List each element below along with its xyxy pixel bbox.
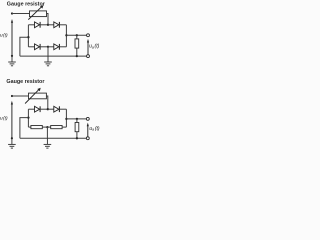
terminal lower output bbox=[87, 55, 90, 58]
gauge resistor RG2 variability arrow bbox=[25, 88, 41, 104]
ground center (bottom circuit) bbox=[44, 138, 52, 148]
resistor R2 body bbox=[31, 126, 42, 129]
resistor R4 body bbox=[75, 123, 79, 132]
voltage arrow ua(t) (bottom circuit) bbox=[87, 123, 89, 137]
wire left tap to bottom rail (bottom circuit) bbox=[20, 118, 29, 139]
voltage arrow ua(t) bbox=[87, 39, 89, 55]
node resistor bottom junction (bottom circuit) bbox=[76, 137, 78, 139]
wire bottom rail (bottom circuit) bbox=[20, 137, 87, 139]
terminal upper output bbox=[87, 34, 90, 37]
gauge resistor RG1 body bbox=[30, 11, 47, 17]
wire R3 to bridge right stub bbox=[62, 126, 66, 128]
node L1 junction on bridge left bbox=[27, 36, 29, 38]
wire node C2 to bottom rail bbox=[46, 127, 48, 138]
node A1 top-left terminal dot bbox=[11, 12, 13, 14]
wire D2 to bridge right bbox=[59, 24, 66, 26]
node source bottom junction (bottom circuit) bbox=[11, 137, 13, 139]
node resistor top junction (bottom circuit) bbox=[76, 118, 78, 120]
resistor R1 body bbox=[75, 39, 79, 48]
node A2 top-left terminal dot bbox=[11, 95, 13, 97]
wire bridge left vertical (bottom circuit) bbox=[27, 109, 29, 127]
svg-text:ua(t): ua(t) bbox=[89, 126, 99, 132]
wire resistor top stub bbox=[76, 35, 78, 39]
node B2 junction bbox=[47, 108, 49, 110]
node L2 junction on bridge left bbox=[27, 116, 29, 118]
wire D6 to bridge right (bottom circuit) bbox=[59, 108, 66, 110]
wire resistor bottom stub bbox=[76, 48, 78, 56]
wire node C2 to R3 bbox=[47, 126, 50, 128]
terminal lower output (bottom circuit) bbox=[86, 137, 89, 140]
wire top rail left (bottom circuit) bbox=[12, 95, 29, 97]
wire D5 to node B2 bbox=[40, 108, 48, 110]
node resistor top junction bbox=[76, 34, 78, 36]
wire node C1 to D4 bbox=[48, 46, 54, 48]
node resistor bottom junction bbox=[76, 55, 78, 57]
diode D4 bbox=[54, 44, 60, 50]
wire top diode row left segment (bottom circuit) bbox=[28, 108, 34, 110]
svg-text:u(t): u(t) bbox=[0, 32, 8, 38]
diode D2 bbox=[54, 22, 60, 28]
svg-text:ua(t): ua(t) bbox=[89, 43, 99, 49]
wire resistor top stub (bottom circuit) bbox=[76, 119, 78, 123]
wire D4 to bridge right bbox=[59, 46, 66, 48]
wire top diode row left segment bbox=[28, 24, 34, 26]
wire top rail left bbox=[12, 13, 30, 15]
wire bridge right vertical bbox=[65, 25, 67, 47]
node R2 junction on bridge right bbox=[65, 118, 67, 120]
resistor R3 body bbox=[51, 126, 62, 129]
wire D1 to node B1 bbox=[40, 24, 48, 26]
wire from RG1 to node B1 bbox=[47, 14, 49, 25]
wire resistor bottom stub (bottom circuit) bbox=[76, 132, 78, 139]
wire bottom diode row left segment bbox=[28, 46, 34, 48]
svg-text:Gauge resistor: Gauge resistor bbox=[7, 1, 46, 7]
ground center (top circuit) bbox=[44, 56, 52, 66]
ground left (bottom circuit) bbox=[8, 138, 16, 148]
wire R2 to node C2 bbox=[42, 126, 47, 128]
node C1 junction bbox=[47, 46, 49, 48]
gauge resistor RG1 variability arrow bbox=[28, 5, 43, 20]
diode D3 bbox=[35, 44, 41, 50]
wire bridge left vertical bbox=[27, 25, 29, 47]
wire bottom row left stub (bottom circuit) bbox=[28, 126, 31, 128]
terminal upper output (bottom circuit) bbox=[86, 117, 89, 120]
wire left tap to bottom rail bbox=[20, 37, 29, 56]
ground left (top circuit) bbox=[8, 56, 16, 66]
wire node B2 to D6 bbox=[48, 108, 54, 110]
node C2 junction bbox=[46, 126, 48, 128]
node R1 junction on bridge right bbox=[65, 34, 67, 36]
voltage source arrow u(t) (bottom circuit) bbox=[11, 101, 13, 138]
voltage source arrow u(t) bbox=[11, 19, 13, 56]
wire node C1 to bottom rail bbox=[47, 47, 49, 56]
diode D5 bbox=[35, 106, 41, 112]
diode D6 bbox=[54, 106, 60, 112]
wire bottom rail bbox=[20, 55, 87, 57]
node B1 junction bbox=[47, 24, 49, 26]
wire bridge right vertical (bottom circuit) bbox=[65, 109, 67, 127]
node source bottom junction bbox=[11, 55, 13, 57]
wire D3 to node C1 bbox=[40, 46, 48, 48]
wire from RG2 to node B2 bbox=[46, 96, 47, 109]
wire right tap to output (bottom circuit) bbox=[66, 118, 86, 120]
gauge resistor RG2 body bbox=[29, 93, 47, 99]
wire right tap to output bbox=[66, 34, 87, 36]
diode D1 bbox=[35, 22, 41, 28]
wire node B1 to D2 bbox=[48, 24, 54, 26]
svg-text:u(t): u(t) bbox=[0, 115, 8, 121]
svg-text:Gauge resistor: Gauge resistor bbox=[6, 79, 45, 85]
